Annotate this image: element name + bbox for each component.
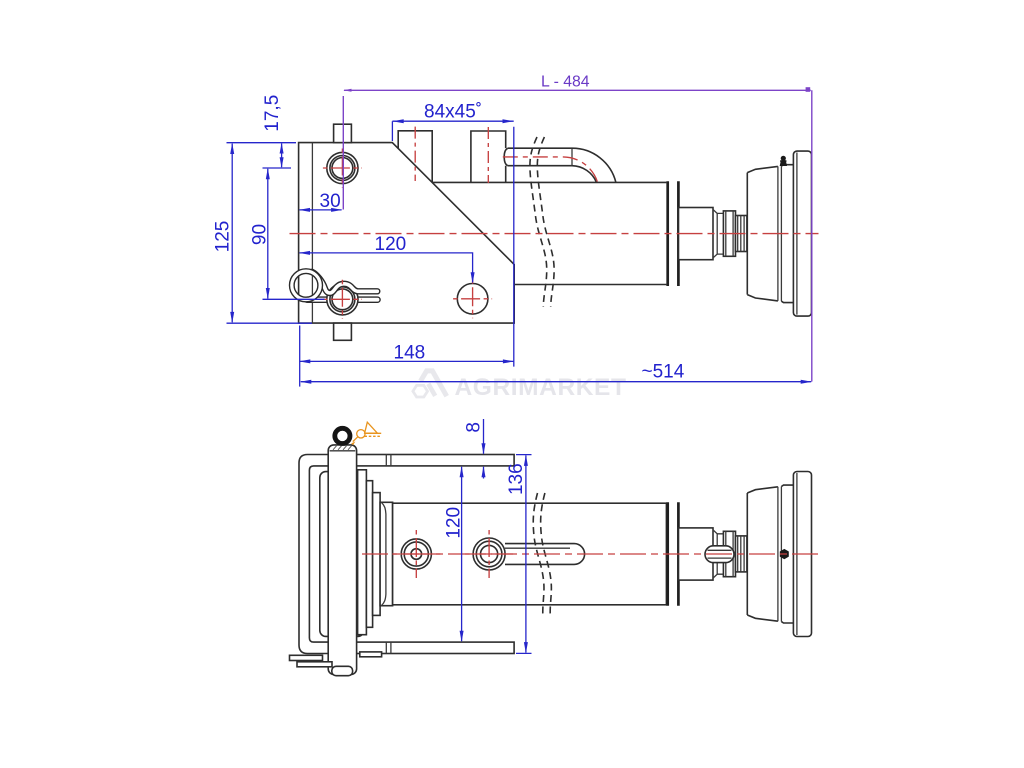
- hole 2 (plan): [473, 538, 505, 570]
- orange leader arrow: [351, 437, 358, 446]
- grease nipple hex (plan): [780, 549, 789, 559]
- rod neck and chamfer: [713, 210, 723, 258]
- dim 90: [250, 168, 325, 299]
- ring on handle top: [335, 428, 350, 443]
- dim 8 (plan): [464, 419, 486, 479]
- R-clip lower prong: [307, 296, 378, 303]
- svg-text:17,5: 17,5: [262, 95, 283, 132]
- port boss 1: [398, 131, 432, 183]
- handle bar hatch: [333, 446, 352, 450]
- svg-text:148: 148: [394, 342, 426, 363]
- cylinder end cap (gland): [668, 181, 679, 286]
- dim 125: [213, 143, 312, 324]
- top hole centerline cross: [323, 149, 362, 188]
- second neck: [736, 216, 747, 252]
- plate tick lines: [386, 455, 391, 654]
- tube centerline: [503, 157, 598, 183]
- dim ~514: [300, 326, 812, 387]
- svg-text:84x45˚: 84x45˚: [424, 102, 482, 123]
- svg-text:120: 120: [375, 234, 407, 255]
- mounting plate (pentagon): [299, 143, 515, 324]
- pin bottom tab: [334, 323, 352, 340]
- rod (plan view): [679, 528, 714, 580]
- svg-text:120: 120: [444, 507, 465, 539]
- inner bracket: [320, 472, 364, 637]
- pin hole centerline cross: [323, 280, 362, 319]
- clevis top plate (plan view): [352, 455, 514, 466]
- main axis centerline (top view): [290, 233, 819, 235]
- collar nut (plan): [723, 531, 735, 576]
- orange datum circle: [357, 430, 365, 438]
- flange ring B: [366, 481, 372, 628]
- svg-text:AGRIMARKET: AGRIMARKET: [455, 374, 627, 401]
- svg-text:90: 90: [250, 224, 271, 245]
- handle bar top edge: [330, 450, 356, 452]
- svg-text:136: 136: [506, 463, 527, 495]
- pin top tab: [334, 124, 352, 142]
- dim 120 (top view): [299, 234, 475, 284]
- flange ring C: [373, 493, 381, 616]
- R-clip upper wire: [312, 272, 377, 293]
- svg-text:30: 30: [320, 191, 341, 212]
- cylinder body (side view): [432, 182, 666, 284]
- break lines (top view): [530, 137, 554, 307]
- dim 148: [299, 342, 514, 363]
- dim L-484 (purple): [343, 74, 812, 382]
- port boss 2: [471, 131, 506, 182]
- grease nipple (side view): [780, 156, 787, 166]
- watermark logo: [413, 371, 447, 397]
- boss2 centerline: [487, 127, 489, 183]
- hole2 centerline cross: [465, 530, 513, 578]
- strap inner loop: [309, 466, 352, 642]
- svg-text:8: 8: [464, 422, 485, 433]
- slot in cylinder: [505, 544, 585, 565]
- break lines (plan view): [533, 493, 551, 615]
- left bent tab 2: [297, 662, 332, 667]
- handle bar bottom cap: [332, 666, 353, 675]
- strap outer loop: [299, 455, 352, 654]
- hydraulic tube: [504, 148, 616, 182]
- front collar with fillets: [380, 502, 393, 605]
- left bent tab 1: [290, 655, 323, 660]
- bell coupling cup (side view): [747, 151, 811, 316]
- hole1 centerline cross: [392, 530, 440, 578]
- clevis bottom plate (plan view): [352, 642, 514, 653]
- plate inner edge line: [311, 143, 313, 324]
- dim 30: [299, 191, 343, 212]
- dim 84x45: [392, 102, 513, 367]
- piston rod: [679, 208, 714, 260]
- grooved collar nut: [723, 211, 735, 256]
- right bent tab: [360, 652, 382, 657]
- third hole: [457, 284, 488, 315]
- main axis centerline (plan view): [362, 553, 819, 555]
- orange triangle flag: [365, 422, 382, 436]
- second neck (plan): [736, 536, 747, 572]
- bell coupling cup (plan view): [747, 472, 811, 637]
- third hole centerline cross: [453, 279, 492, 318]
- pin oval grip (plan): [705, 546, 734, 563]
- top hole: [327, 152, 358, 183]
- rod neck (plan): [713, 530, 723, 578]
- pin hole with head: [327, 284, 358, 315]
- dim 136 (plan): [506, 455, 531, 654]
- hole 1 (plan): [401, 539, 431, 569]
- slot inner line: [505, 547, 570, 549]
- end cap (plan view): [668, 502, 679, 606]
- flange ring A: [358, 470, 367, 635]
- svg-text:L - 484: L - 484: [541, 74, 590, 91]
- handle bar: [328, 445, 356, 675]
- dim 120 (plan): [444, 466, 465, 642]
- svg-text:~514: ~514: [642, 362, 685, 383]
- boss1 centerline: [414, 127, 416, 181]
- cylinder body (plan view): [393, 503, 667, 605]
- svg-text:125: 125: [213, 221, 234, 253]
- dim 17,5: [227, 95, 297, 168]
- R-clip loop: [292, 271, 320, 299]
